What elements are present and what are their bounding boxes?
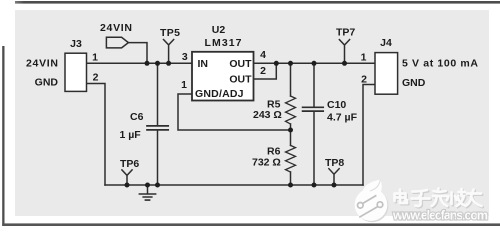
svg-text:IN: IN: [198, 58, 209, 70]
svg-text:2: 2: [93, 72, 99, 84]
svg-text:C10: C10: [327, 99, 346, 111]
svg-text:GND/ADJ: GND/ADJ: [195, 88, 244, 100]
svg-text:2: 2: [361, 74, 367, 86]
svg-text:GND: GND: [402, 77, 426, 89]
svg-text:243 Ω: 243 Ω: [253, 109, 282, 121]
svg-text:GND: GND: [35, 77, 59, 89]
svg-text:TP5: TP5: [160, 27, 180, 39]
svg-text:C6: C6: [130, 111, 144, 123]
svg-text:1: 1: [181, 79, 187, 91]
svg-text:2: 2: [260, 65, 266, 77]
svg-text:24VIN: 24VIN: [100, 22, 132, 34]
svg-text:U2: U2: [212, 24, 226, 36]
svg-text:1 µF: 1 µF: [120, 129, 142, 141]
svg-text:1: 1: [92, 52, 98, 64]
svg-text:3: 3: [182, 51, 188, 63]
svg-text:1: 1: [361, 52, 367, 64]
svg-text:24VIN: 24VIN: [26, 58, 58, 70]
svg-text:4.7 µF: 4.7 µF: [327, 112, 358, 124]
svg-text:5 V at 100 mA: 5 V at 100 mA: [402, 58, 478, 70]
svg-text:J3: J3: [70, 38, 82, 50]
svg-text:J4: J4: [380, 37, 392, 49]
svg-text:OUT: OUT: [229, 74, 252, 86]
svg-text:OUT: OUT: [229, 58, 252, 70]
svg-text:LM317: LM317: [205, 37, 242, 49]
svg-text:732 Ω: 732 Ω: [252, 157, 281, 169]
svg-text:TP7: TP7: [336, 27, 355, 39]
svg-text:www.elecfans.com: www.elecfans.com: [392, 209, 488, 223]
svg-text:TP8: TP8: [325, 157, 344, 169]
svg-text:TP6: TP6: [120, 158, 139, 170]
svg-text:4: 4: [260, 49, 266, 61]
